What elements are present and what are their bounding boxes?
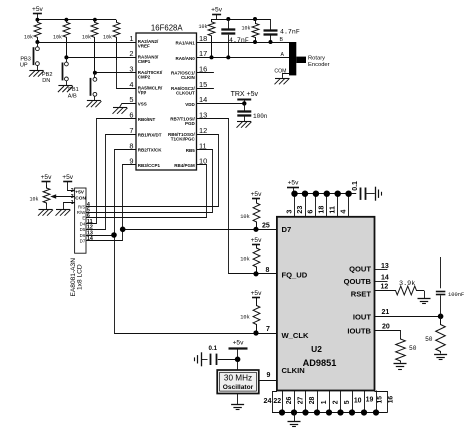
svg-text:QOUTB: QOUTB: [344, 277, 372, 286]
svg-text:RB2/TX/CK: RB2/TX/CK: [138, 148, 163, 153]
svg-text:10k: 10k: [29, 197, 38, 203]
IC U2 AD9851: [262, 217, 375, 391]
resistor 10k (DDS D7 pullup): [240, 191, 262, 229]
svg-text:13: 13: [381, 263, 389, 270]
pin stub RA6/OSC2 (15): [197, 88, 214, 90]
junction (DDS D7 pin 25): [255, 228, 257, 230]
ground (oscillator): [231, 405, 244, 410]
wire RB1 to LCD D5: [86, 135, 136, 230]
svg-text:Encoder: Encoder: [308, 62, 330, 68]
svg-text:CLKIN: CLKIN: [282, 366, 305, 375]
svg-text:CMP1: CMP1: [138, 59, 151, 64]
svg-text:CON: CON: [75, 195, 86, 201]
power +5V (LCD Vdd): [62, 174, 74, 190]
svg-text:+5v: +5v: [233, 339, 245, 346]
wire DDS supply rail: [293, 193, 357, 195]
svg-text:U2: U2: [311, 344, 322, 354]
svg-text:100nF: 100nF: [448, 292, 464, 298]
svg-text:IOUT: IOUT: [353, 313, 372, 322]
pushbutton PB3 (UP): [20, 42, 39, 68]
svg-text:3: 3: [129, 65, 133, 74]
svg-text:1: 1: [129, 34, 133, 43]
svg-text:RSET: RSET: [351, 289, 372, 298]
pushbutton PB2 (DN): [42, 57, 68, 84]
svg-text:D5: D5: [80, 227, 86, 232]
svg-text:0.1: 0.1: [209, 345, 218, 352]
svg-text:3: 3: [284, 210, 293, 214]
svg-text:+5V: +5V: [75, 189, 84, 195]
LCD module EA8081-A3N 1x8: [71, 188, 93, 253]
svg-text:RA0/AN0: RA0/AN0: [176, 56, 196, 61]
svg-text:16F628A: 16F628A: [151, 23, 183, 32]
resistor 10k (MCLR pullup): [103, 20, 120, 60]
svg-text:B: B: [280, 37, 284, 43]
svg-text:15: 15: [199, 80, 207, 89]
ground (PB2): [58, 86, 73, 93]
svg-text:18: 18: [199, 34, 207, 43]
svg-text:VREF: VREF: [138, 44, 150, 49]
svg-text:TRX +5v: TRX +5v: [231, 91, 259, 98]
svg-text:+5v: +5v: [41, 174, 53, 181]
svg-text:UP: UP: [20, 62, 28, 68]
junction dots (ground rail): [279, 409, 379, 415]
svg-text:RB0/INT: RB0/INT: [138, 117, 156, 122]
svg-text:A/B: A/B: [68, 93, 77, 99]
svg-text:10k: 10k: [240, 315, 250, 321]
ground (PB3): [29, 71, 44, 77]
svg-text:T1CKI/PGC: T1CKI/PGC: [171, 136, 196, 141]
svg-text:10k: 10k: [103, 34, 112, 40]
resistor 10k (RA1/B pullup): [241, 19, 258, 42]
svg-text:2: 2: [332, 400, 339, 404]
svg-text:10: 10: [354, 397, 362, 404]
resistor 10k (FQ_UD pullup): [240, 237, 262, 274]
ground (IOUT termination): [434, 355, 447, 360]
wire pot to ground: [46, 205, 48, 210]
resistor 50 (IOUT termination): [425, 316, 445, 353]
junction (W_CLK pullup): [253, 330, 258, 335]
svg-text:27: 27: [297, 396, 304, 404]
svg-text:19: 19: [366, 397, 374, 404]
svg-text:4: 4: [338, 210, 347, 214]
svg-text:30 MHz: 30 MHz: [224, 374, 252, 383]
pushbutton PB1 (A/B): [68, 73, 97, 100]
svg-text:26: 26: [286, 396, 293, 404]
svg-text:6: 6: [306, 210, 315, 214]
svg-text:0.1: 0.1: [352, 181, 359, 191]
svg-text:25: 25: [262, 223, 270, 230]
svg-text:+5v: +5v: [251, 191, 263, 198]
wire +5V rail (encoder): [212, 19, 271, 21]
svg-text:28: 28: [309, 396, 316, 404]
wire RA0 to encoder A: [197, 52, 290, 59]
capacitor 4.7nF (B filter): [264, 19, 300, 42]
svg-text:12: 12: [381, 283, 389, 290]
svg-text:PB1: PB1: [68, 87, 79, 93]
svg-text:8: 8: [266, 267, 270, 274]
wire RA4 node row: [93, 71, 136, 75]
wire MCLR node row: [117, 60, 137, 89]
power TRX +5v (VDD): [231, 91, 259, 103]
svg-text:Rotary: Rotary: [308, 56, 325, 62]
svg-text:AD9851: AD9851: [303, 358, 337, 368]
junction (D6/W_CLK): [111, 232, 117, 238]
ground (IOUTB termination): [394, 364, 407, 370]
svg-text:7: 7: [266, 326, 270, 333]
junction (D7 node): [120, 227, 126, 233]
svg-text:Oscillator: Oscillator: [223, 384, 254, 391]
junction (D7 pullup): [253, 227, 258, 232]
svg-text:CLKOUT: CLKOUT: [176, 90, 195, 95]
svg-text:R/W: R/W: [77, 210, 86, 215]
svg-text:5: 5: [344, 400, 351, 404]
wire RB7 to DDS FQ_UD: [197, 119, 277, 274]
resistor 3.9k (RSET): [375, 280, 425, 298]
resistor 50 (IOUTB termination): [396, 338, 417, 363]
svg-text:22: 22: [273, 398, 281, 405]
svg-text:FQ_UD: FQ_UD: [282, 270, 308, 279]
wire RA3 node row: [64, 55, 136, 59]
wire oscillator to ground: [237, 394, 239, 405]
wire PB2 to ground: [66, 81, 68, 86]
svg-text:10k: 10k: [240, 257, 250, 263]
svg-text:10k: 10k: [53, 34, 62, 40]
ground (PB1): [86, 101, 101, 108]
svg-text:DN: DN: [42, 78, 50, 84]
svg-text:3.9k: 3.9k: [399, 280, 415, 288]
svg-text:18: 18: [317, 206, 326, 214]
ground (DDS bypass): [376, 187, 382, 201]
oscillator module 30 MHz: [217, 370, 259, 394]
wire RA1 to encoder B: [197, 37, 290, 44]
svg-text:14: 14: [199, 95, 207, 104]
wire +5V rail (top-left): [37, 19, 116, 21]
power +5V (encoder pullups): [211, 7, 223, 19]
svg-text:11: 11: [328, 206, 337, 214]
svg-text:E: E: [82, 216, 85, 221]
resistor 10k (RA4 pullup): [82, 20, 98, 73]
ground (encoder COM): [275, 78, 290, 84]
svg-text:16: 16: [387, 396, 394, 404]
svg-text:10k: 10k: [241, 26, 250, 32]
junction (IOUT node): [438, 314, 444, 320]
wire RA2 node row: [35, 40, 136, 44]
potentiometer 10k (LCD contrast): [29, 185, 74, 205]
svg-text:10k: 10k: [198, 24, 207, 30]
resistor 10k (RA3 pullup): [53, 20, 70, 58]
ground (pot): [38, 210, 53, 216]
svg-text:PGD: PGD: [185, 121, 196, 126]
wire VSS to ground: [120, 104, 137, 108]
resistor 10k (RA0/A pullup): [198, 19, 214, 57]
power +5V (oscillator): [229, 339, 248, 370]
power +5V (pushbutton pullups): [32, 6, 44, 20]
svg-text:10k: 10k: [240, 214, 250, 220]
wire rail to ground: [294, 413, 296, 422]
svg-text:+5v: +5v: [251, 237, 263, 244]
junction dots (DDS supply rail): [291, 191, 352, 197]
ground (DDS): [288, 422, 301, 427]
junction (FQ_UD pullup): [253, 271, 258, 276]
svg-text:COM: COM: [274, 69, 286, 75]
svg-text:1: 1: [321, 400, 328, 404]
pin stub QOUTB (14): [375, 274, 389, 281]
power +5V (DDS supply rail): [287, 179, 299, 193]
svg-text:4.7nF: 4.7nF: [280, 29, 300, 36]
resistor 10k (RA2 pullup): [24, 20, 41, 42]
ground (VDD bypass): [237, 122, 252, 128]
wire RB2 to LCD D6 and DDS W_CLK: [86, 150, 277, 334]
svg-text:RB1/RX/DT: RB1/RX/DT: [138, 132, 162, 137]
svg-text:Vpp: Vpp: [138, 90, 147, 95]
svg-text:+5v: +5v: [211, 7, 223, 14]
junction (osc supply): [235, 357, 241, 363]
svg-text:RB4/PGM: RB4/PGM: [174, 163, 195, 168]
junction dots on +5V rail: [36, 18, 97, 22]
svg-text:11: 11: [199, 141, 207, 150]
rotary encoder: [289, 42, 330, 75]
svg-text:23: 23: [295, 206, 304, 214]
wire IOUTB (20): [375, 323, 401, 338]
capacitor 4.7nF (A filter): [221, 19, 249, 57]
svg-text:24: 24: [264, 396, 272, 405]
capacitor 100nF (output coupling): [436, 292, 464, 317]
svg-text:D4: D4: [80, 221, 86, 226]
pin stub RA7/OSC1 (16): [197, 72, 214, 74]
pin stub QOUT (13): [375, 263, 389, 270]
svg-text:+5v: +5v: [251, 290, 263, 297]
power +5V (contrast pot): [41, 174, 53, 185]
svg-text:10k: 10k: [82, 34, 91, 40]
ground (osc bypass cap): [195, 352, 208, 366]
svg-text:100n: 100n: [253, 113, 268, 120]
svg-text:RB5: RB5: [186, 148, 195, 153]
resistor 10k (W_CLK pullup): [240, 290, 262, 333]
svg-text:1x8 LCD: 1x8 LCD: [77, 264, 84, 290]
svg-text:15: 15: [376, 396, 383, 404]
svg-text:8: 8: [129, 141, 133, 150]
svg-text:VSS: VSS: [138, 102, 147, 107]
svg-text:21: 21: [382, 309, 390, 316]
capacitor 0.1 (DDS bypass): [352, 181, 375, 200]
wire RB4 to LCD E: [86, 165, 207, 218]
svg-text:QOUT: QOUT: [349, 265, 371, 274]
svg-text:A: A: [281, 52, 285, 58]
ground (RSET): [418, 299, 431, 304]
svg-text:VDD: VDD: [185, 102, 195, 107]
capacitor 0.1 (osc bypass): [209, 345, 238, 365]
capacitor 100n (VDD bypass): [237, 103, 268, 121]
wire RB6 to LCD R/S: [86, 135, 219, 207]
svg-text:12: 12: [199, 126, 207, 135]
pin stubs DDS supply (3,23,6,18,11,4): [284, 194, 348, 217]
svg-text:20: 20: [382, 323, 390, 330]
svg-text:CLKIN: CLKIN: [181, 75, 195, 80]
ground (VSS): [113, 108, 128, 114]
svg-text:10k: 10k: [24, 34, 33, 40]
svg-text:5: 5: [129, 95, 133, 104]
svg-text:CMP2: CMP2: [138, 74, 151, 79]
svg-text:D7: D7: [282, 225, 292, 234]
svg-text:50: 50: [409, 345, 417, 352]
svg-text:17: 17: [199, 49, 207, 58]
wire oscillator to CLKIN (9): [259, 380, 277, 382]
svg-text:4: 4: [129, 80, 133, 89]
svg-text:D6: D6: [80, 233, 86, 238]
pin stubs DDS ground (bottom): [264, 391, 395, 413]
wire RB0 to LCD D4: [86, 119, 136, 224]
svg-text:IOUTB: IOUTB: [347, 327, 371, 336]
wire PB3 to ground: [37, 66, 39, 71]
wire encoder COM to ground: [274, 69, 289, 78]
svg-text:+5v: +5v: [62, 174, 74, 181]
svg-text:RB3/CCP1: RB3/CCP1: [138, 163, 161, 168]
svg-text:1: 1: [71, 200, 74, 206]
wire IOUT (21): [375, 309, 441, 317]
svg-text:+5v: +5v: [32, 6, 44, 13]
ground (LCD pin1): [56, 210, 71, 216]
svg-text:7: 7: [129, 126, 133, 135]
svg-text:9: 9: [267, 372, 271, 379]
svg-text:14: 14: [381, 274, 389, 281]
svg-text:R/S: R/S: [78, 204, 85, 209]
label EA8081-A3N 1x8 LCD: [70, 258, 84, 297]
svg-text:+5v: +5v: [288, 179, 300, 186]
svg-text:14: 14: [87, 236, 93, 242]
wire VDD row: [197, 101, 247, 105]
wire PB1 to ground: [94, 96, 96, 101]
wire DDS ground rail: [272, 412, 388, 414]
IC PIC 16F628A: [129, 23, 207, 170]
junction dots (encoder rail): [226, 17, 257, 21]
svg-text:RA1/AN1: RA1/AN1: [176, 40, 196, 45]
svg-text:2: 2: [129, 49, 133, 58]
wire RB3 to LCD D7 and DDS D7: [86, 165, 277, 241]
wire RF output stub: [440, 257, 442, 288]
wire RB5 to LCD R/W: [86, 150, 213, 213]
svg-text:W_CLK: W_CLK: [282, 331, 310, 340]
svg-text:D7: D7: [80, 239, 86, 244]
wire LCD Vss (pin1) to ground: [64, 203, 75, 210]
svg-text:50: 50: [425, 336, 433, 343]
